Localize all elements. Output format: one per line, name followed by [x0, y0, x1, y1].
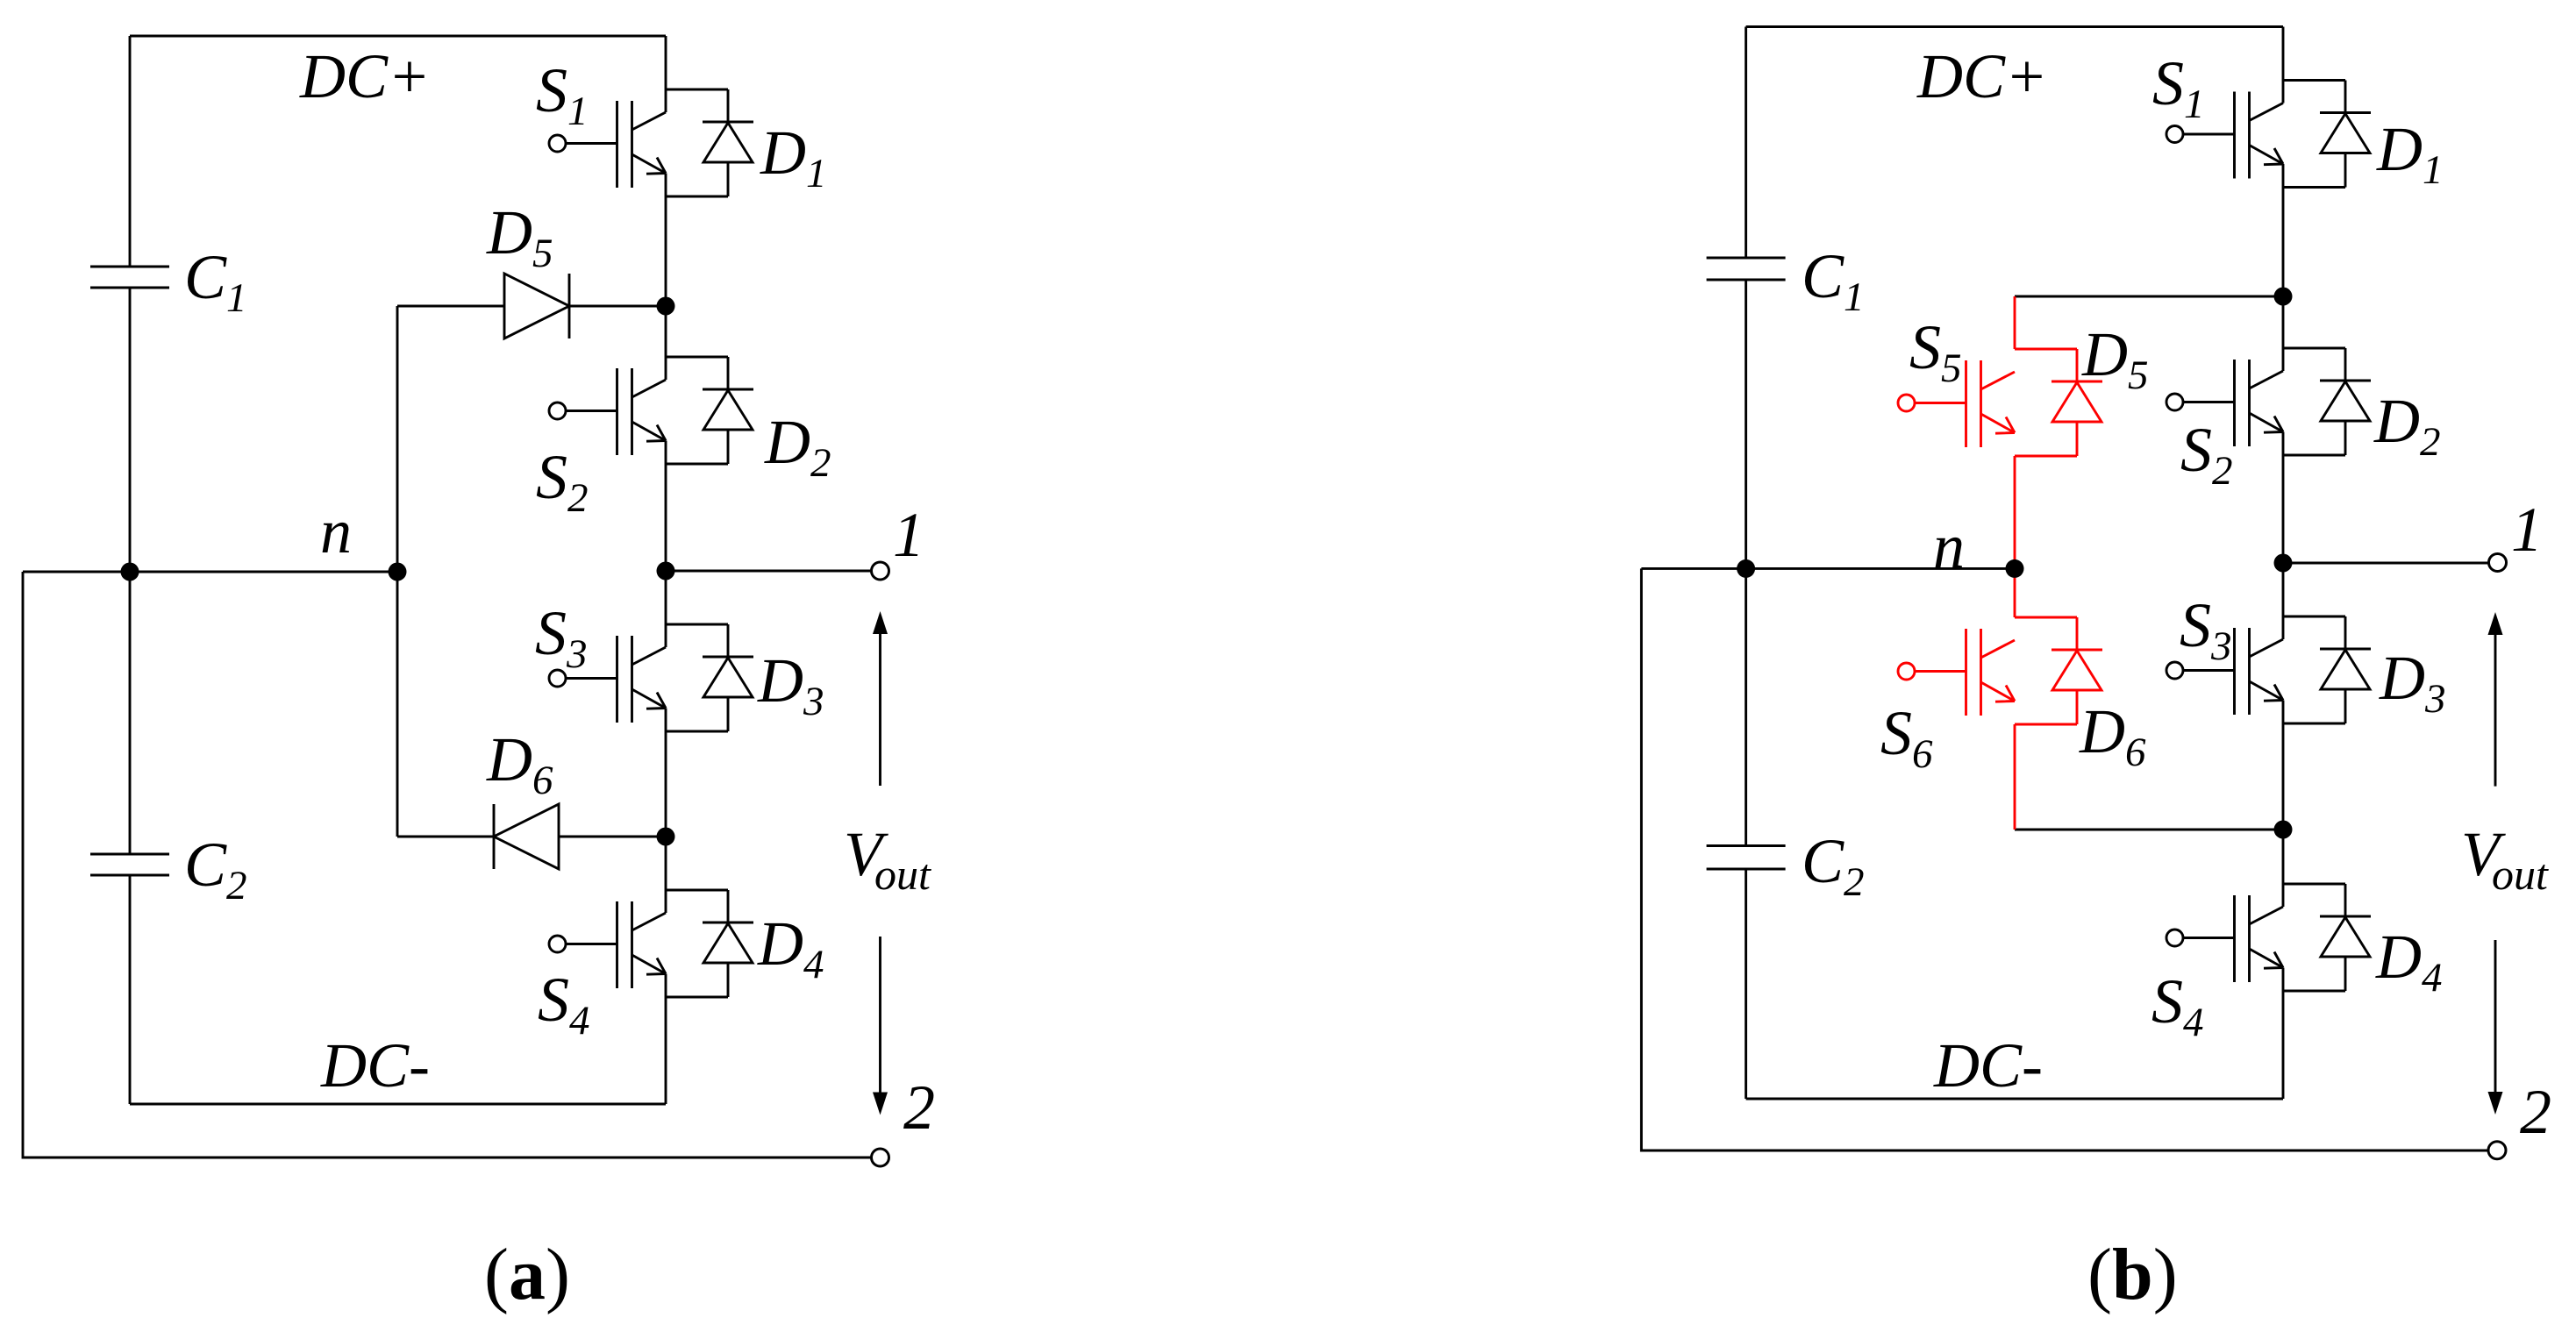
svg-text:1: 1: [2511, 495, 2543, 565]
svg-text:DC+: DC+: [299, 41, 431, 111]
svg-text:n: n: [320, 496, 352, 566]
svg-text:DC-: DC-: [320, 1030, 430, 1101]
svg-text:1: 1: [893, 500, 924, 570]
svg-text:n: n: [1933, 511, 1965, 581]
svg-text:(a): (a): [484, 1234, 570, 1315]
svg-text:DC-: DC-: [1933, 1030, 2043, 1101]
svg-text:DC+: DC+: [1916, 41, 2048, 111]
svg-text:out: out: [874, 850, 931, 899]
svg-text:2: 2: [2520, 1077, 2551, 1147]
svg-text:(b): (b): [2087, 1234, 2178, 1315]
svg-text:out: out: [2492, 850, 2549, 899]
svg-text:2: 2: [903, 1072, 935, 1143]
